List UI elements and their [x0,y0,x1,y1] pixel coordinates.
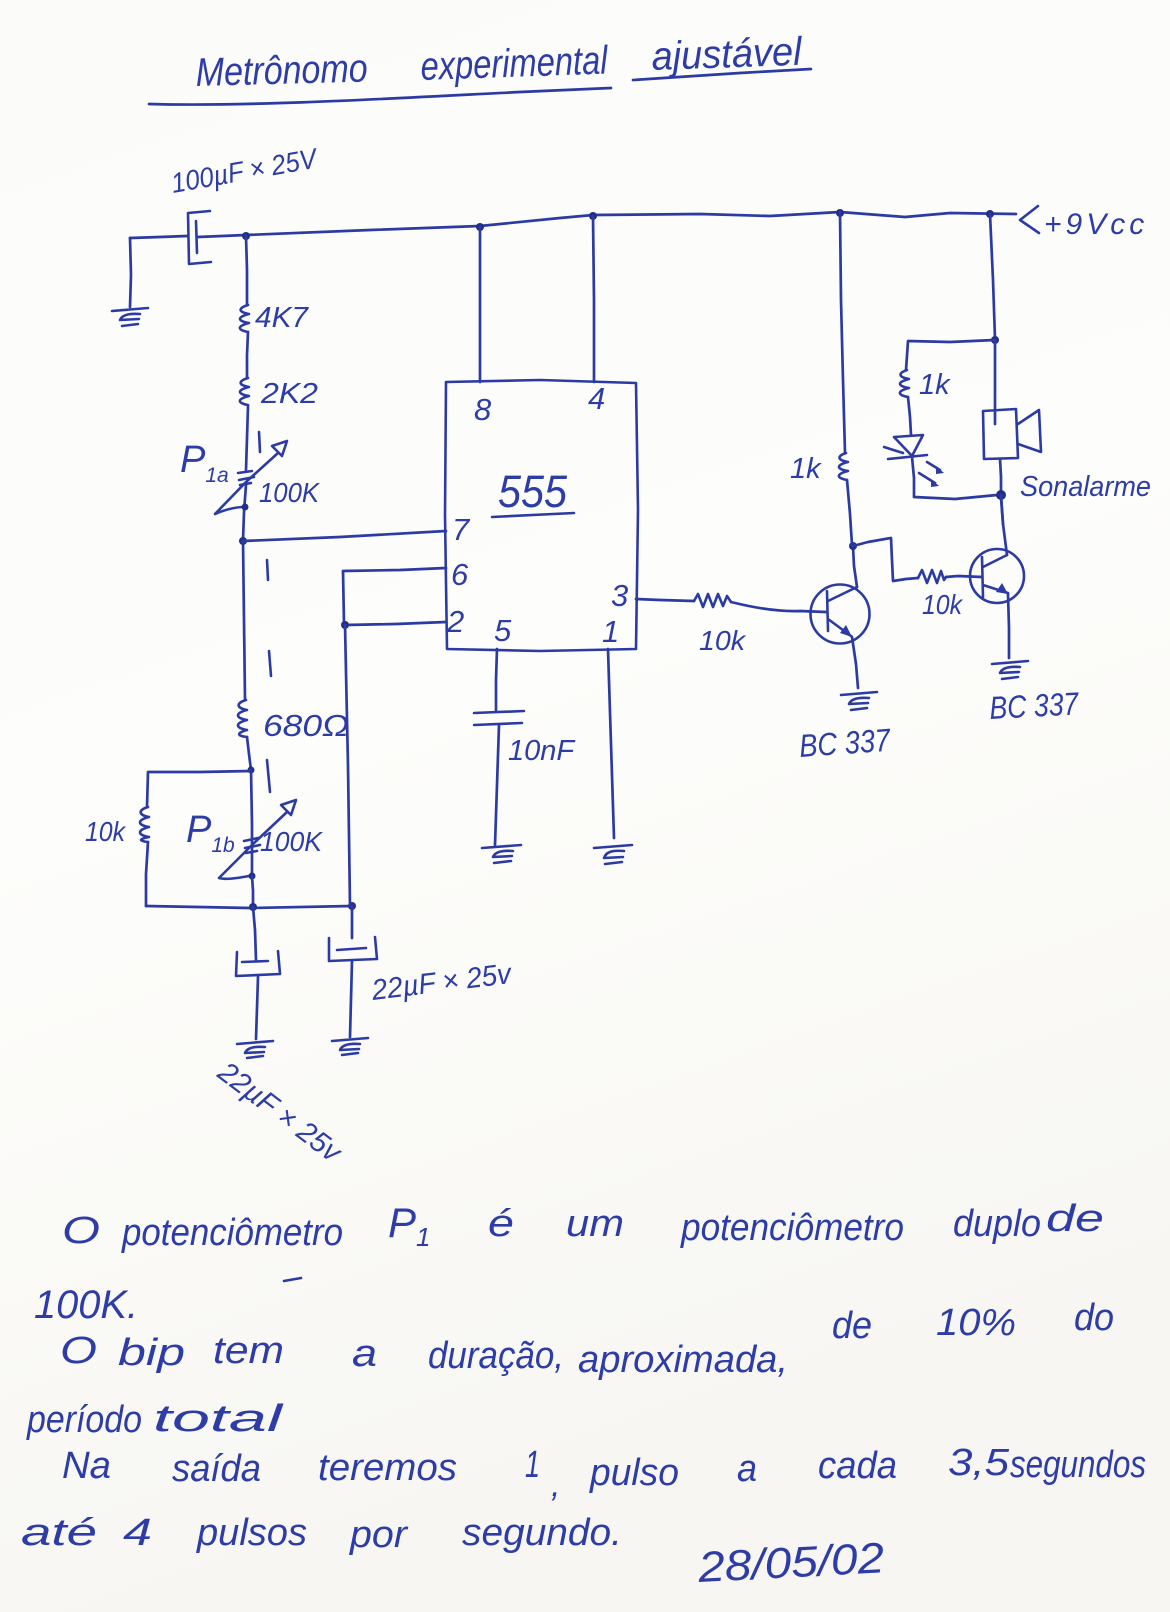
wire bottom horizontal [146,906,352,908]
wire to capacitor C3 [351,906,354,938]
resistor R4 10k [140,807,149,842]
svg-text:10%: 10% [936,1302,1016,1344]
wire C3 to ground [350,961,352,1037]
wire node D to speaker LS1 [994,341,997,424]
svg-text:10k: 10k [922,589,964,620]
Q1 emitter arrowhead [840,625,852,637]
svg-text:do: do [1074,1297,1114,1339]
wire D1 to node C [912,457,997,499]
svg-text:por: por [349,1514,408,1556]
svg-text:até: até [21,1512,97,1554]
node bottom right cap [348,902,356,910]
svg-text:,: , [551,1466,560,1504]
stray tick [284,1278,301,1281]
potentiometer P1b track contact [244,838,260,853]
ground pin1 [594,845,632,864]
svg-text:duração,: duração, [428,1335,564,1377]
Q1 collector stroke [828,587,857,601]
CIRCUIT RIGHT [341,212,1151,906]
ground C3 [332,1038,368,1055]
wire C2 to ground [256,977,258,1039]
P1b arrowhead [281,800,296,815]
svg-text:de: de [832,1305,872,1347]
svg-text:pulso: pulso [589,1452,679,1494]
LED D1 [884,435,927,459]
svg-text:pulsos: pulsos [196,1512,307,1554]
svg-text:4: 4 [588,381,605,416]
svg-text:1: 1 [525,1444,540,1486]
svg-text:tem: tem [213,1330,284,1372]
wire P1b to bottom junction [252,876,253,906]
wire rail down right branch [990,214,995,339]
ground C4 [482,845,521,863]
wire node pin2 down to C3 [345,625,350,906]
wire node B step to R7 [853,538,918,581]
node A top of P1b [248,767,255,774]
wire R5 to Q1 base [731,602,826,612]
svg-text:segundo.: segundo. [462,1512,622,1554]
svg-text:saída: saída [172,1448,261,1490]
transistor Q2 BC337 [970,549,1024,603]
LED D1 emission arrows [919,462,940,483]
svg-text:BC 337: BC 337 [798,722,892,764]
svg-text:a: a [352,1333,377,1375]
wire pin4 to rail [593,216,594,382]
wire ground to capacitor C1 [130,236,187,238]
svg-text:2: 2 [446,604,464,639]
wire R2 to P1a [246,406,248,470]
svg-text:potenciômetro: potenciômetro [121,1212,343,1254]
wire pin1 down [608,649,614,838]
wire C4 to ground [495,725,499,845]
op-amp/timer U1 555 box [445,380,638,651]
svg-text:bip: bip [118,1332,185,1374]
node pin7 tap [239,537,247,545]
wire to capacitor C2 [253,907,256,960]
svg-text:6: 6 [451,557,469,592]
svg-text:680Ω: 680Ω [263,708,349,743]
wire pin5 down [496,649,497,711]
node D LED branch tap [991,336,999,344]
wire rail to R1 [246,236,247,305]
speaker LS1 [983,409,1041,459]
potentiometer P1a wiper arrow [215,453,278,514]
wire Q2 emitter to ground [1008,594,1009,658]
node B Q1 collector [849,542,857,550]
resistor R5 10K [694,594,731,607]
svg-text:7: 7 [452,512,471,547]
node rail pin4 [589,212,597,220]
TITLE [149,30,811,105]
svg-text:10k: 10k [699,625,747,656]
capacitor C2 22uF x 25V [236,951,280,976]
potentiometer P1b wiper arrow [219,812,287,879]
Q1 emitter stroke [828,619,851,636]
svg-text:1k: 1k [919,369,951,401]
resistor R7 10K [918,570,946,583]
capacitor C1 100uF x 25V [188,211,211,264]
wire node D to R8 [906,340,995,370]
resistor R2 2K2 [240,378,249,405]
wire top-left ground stub [130,238,131,307]
wire P1a to node7 [243,485,246,541]
svg-text:O: O [62,1210,100,1252]
transistor Q1 BC337 [811,585,870,644]
ground Q1 [841,692,877,710]
svg-text:Sonalarme: Sonalarme [1020,471,1151,503]
wire R3 to node A [247,737,251,770]
wire Q1 emitter to ground [852,637,858,688]
svg-text:Na: Na [62,1445,111,1487]
wire pin2 [345,622,446,625]
node P1a wiper tap [242,504,249,511]
wire Q2 collector to node C [1001,497,1007,555]
ground C2 [237,1041,273,1058]
svg-text:total: total [153,1398,285,1440]
gang dashed link [267,560,271,792]
svg-text:10nF: 10nF [508,735,576,767]
svg-text:um: um [566,1203,624,1245]
PARAGRAPHS [21,1198,1146,1592]
wire C1 to rail junction [198,235,246,237]
ground Q2 [992,661,1028,679]
wire +9V supply rail [246,212,1016,235]
svg-text:100K: 100K [260,826,323,857]
svg-text:potenciômetro: potenciômetro [680,1207,904,1249]
wire node A to R4 branch [147,771,251,807]
wire node C to Q2 collector [1001,495,1003,524]
svg-text:1k: 1k [790,453,822,485]
svg-text:10k: 10k [85,816,127,847]
svg-text:1: 1 [602,614,619,649]
svg-text:100K.: 100K. [34,1283,138,1327]
P1a arrowhead [272,441,287,456]
wire Q1 collector to node B [853,547,857,587]
wire pin6 [343,568,446,624]
Q2 emitter arrowhead [996,583,1008,594]
svg-text:4K7: 4K7 [255,302,310,334]
wire R8 to LED D1 [908,397,911,435]
svg-text:100K: 100K [259,477,320,508]
svg-text:período: período [26,1399,142,1441]
svg-text:3: 3 [611,578,628,613]
P1a gang dash [259,432,260,452]
svg-text:a: a [737,1448,757,1490]
svg-text:28/05/02: 28/05/02 [696,1534,885,1592]
label U1 underline [492,513,574,517]
resistor R8 1k [900,370,909,397]
node rail LED/speaker branch [986,210,994,218]
svg-text:8: 8 [474,392,492,427]
svg-text:duplo: duplo [953,1203,1041,1245]
node pin2/6 [341,621,349,629]
node P1b wiper tap [249,873,256,880]
Q2 collector stroke [983,555,1007,567]
potentiometer P1a track contact [238,471,254,485]
LED arrowhead 1 [936,466,944,474]
wire R7 to Q2 base [946,576,982,577]
ground [112,308,148,326]
svg-text:de: de [1046,1198,1104,1240]
svg-text:3,5: 3,5 [948,1442,1010,1484]
node C [996,490,1006,500]
node rail pin8 [476,223,484,231]
wire node7 to pin7 [243,531,446,541]
resistor R1 4K7 [240,305,249,332]
svg-text:4: 4 [123,1512,152,1554]
wire R4 to bottom wire [146,842,148,906]
svg-text:5: 5 [494,613,512,648]
svg-text:segundos: segundos [1010,1444,1146,1486]
resistor R3 680ohm [238,700,247,737]
svg-text:cada: cada [818,1445,897,1487]
wire pin8 to rail [479,227,482,382]
svg-text:aproximada,: aproximada, [578,1339,788,1381]
wire R6 to node B [847,480,852,545]
svg-text:Metrônomo: Metrônomo [195,47,368,95]
wire R1 to R2 [247,332,248,378]
Q2 emitter stroke [983,585,1008,593]
resistor R6 1K [839,453,848,480]
svg-text:BC 337: BC 337 [988,685,1080,726]
capacitor C3 22uF x 25V [329,937,377,961]
LED arrowhead 2 [931,479,939,487]
svg-text:2K2: 2K2 [260,378,318,410]
node rail-C1 [242,232,250,240]
Q2 base bar [982,557,983,597]
node bottom left cap [249,903,257,911]
Q1 base bar [827,591,828,631]
potentiometer P1b track [251,770,252,876]
svg-text:é: é [488,1203,514,1245]
svg-text:O: O [60,1330,97,1372]
wire pin3 out [636,599,694,601]
svg-text:experimental: experimental [420,38,609,89]
node rail 1K branch [836,209,844,217]
svg-text:555: 555 [498,466,568,517]
svg-text:+9Vcc: +9Vcc [1044,208,1148,241]
+9Vcc arrow [1020,206,1039,233]
svg-text:teremos: teremos [318,1447,457,1489]
wire rail to R6 [840,212,845,453]
wire LS1 to node C [1000,459,1001,493]
wire node7 down to R3 [243,541,245,700]
capacitor C4 10nF [474,711,524,725]
